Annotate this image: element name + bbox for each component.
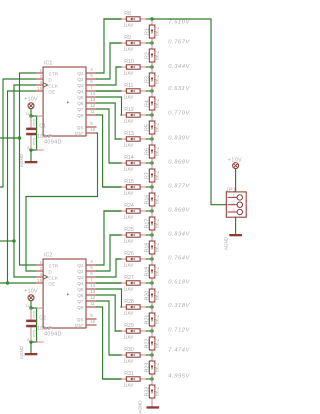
svg-text:Q3: Q3 [77,275,84,281]
wire IC1 Q3 to row3 [97,67,121,85]
wire R14 left lead to net [109,162,121,164]
wire R14 to junction [146,162,152,164]
wire R9 to junction [146,42,152,44]
svg-text:12: 12 [90,103,96,108]
svg-text:QS: QS [77,125,84,131]
wire R8 to junction [146,18,152,20]
VSS pin stub 8 (IC1) [37,149,44,151]
svg-text:6: 6 [90,271,93,276]
wire R27 left lead to net [97,282,121,284]
IC2 left pin stubs [35,265,43,283]
svg-text:R26: R26 [124,251,134,257]
svg-text:6K2: 6K2 [155,267,161,276]
node junction row 4 [150,89,153,92]
junction dot VSS (IC2) [29,340,32,343]
wire IC1 Q4 to row4 [97,90,121,92]
node STR junction [18,136,21,139]
svg-text:6K2: 6K2 [155,219,161,228]
svg-text:11K8: 11K8 [124,119,134,124]
resistor R11 11K8 (horizontal) [121,83,146,100]
IC1 left pin numbers 1 2 3 15 [37,68,43,91]
wire STR bus IC1 pin1 to IC2 pin1 [20,73,36,265]
IC2 origin mark [67,293,69,295]
resistor R4 6K2 (vertical) [144,91,160,115]
VDD supply loop wire (IC1) [31,116,37,150]
svg-text:R10: R10 [124,59,134,65]
svg-text:0.868V: 0.868V [168,207,190,213]
resistor R2 6K2 (vertical) [144,43,160,67]
wire VSS to AGND (IC1) [30,150,32,161]
wire R10 left lead to net [116,66,121,68]
svg-text:11K8: 11K8 [124,359,134,364]
wire R29 left lead to net [115,330,121,332]
svg-text:R16: R16 [144,195,150,205]
svg-text:R22: R22 [144,339,150,349]
svg-text:6K2: 6K2 [155,99,161,108]
resistor R14 11K8 (horizontal) [121,155,146,172]
svg-text:0.839V: 0.839V [168,135,190,141]
VDD supply loop wire (IC2) [31,308,37,342]
svg-text:Q8: Q8 [77,113,84,119]
resistor R25 11K8 (horizontal) [121,227,146,244]
svg-text:11K8: 11K8 [124,191,134,196]
wire IC1 Q6 to row6 [97,103,121,139]
svg-text:9: 9 [90,121,93,126]
resistor R27 11K8 (horizontal) [121,275,146,292]
svg-text:R7: R7 [144,172,150,179]
svg-text:7.474V: 7.474V [168,348,190,354]
svg-text:AGND: AGND [223,236,228,250]
svg-text:R8: R8 [124,11,131,17]
node junction row 1 [150,17,153,20]
resistor R28 11K8 (horizontal) [121,299,146,316]
svg-text:5: 5 [90,265,93,270]
capacitor C2 100nF [26,308,52,342]
wire R31 left lead to net [103,378,121,380]
svg-text:R14: R14 [124,155,134,161]
svg-text:15: 15 [37,278,43,283]
resistor R30 11K8 (horizontal) [121,347,146,364]
resistor R3 6K2 (vertical) [144,67,160,91]
node junction row 3 [150,65,153,68]
svg-text:C1: C1 [39,124,46,130]
svg-text:5: 5 [90,73,93,78]
svg-text:4: 4 [90,67,93,72]
resistor R31 11K8 (horizontal) [121,371,146,388]
IC2 clock input triangle [43,275,48,280]
svg-text:6K2: 6K2 [155,291,161,300]
svg-text:R9: R9 [124,35,131,41]
svg-text:7: 7 [90,277,93,282]
svg-text:0.344V: 0.344V [168,64,190,70]
IC1 left pin stubs [35,73,43,91]
resistor R23 6K2 (vertical) [144,355,160,379]
wire R29 to junction [146,330,152,332]
svg-text:100nF: 100nF [37,326,52,332]
wire R26 to junction [146,258,152,260]
resistor R29 11K8 (horizontal) [121,323,146,340]
svg-text:R30: R30 [124,347,134,353]
node junction row 15 [150,353,153,356]
junction dot VDD (IC2) [29,306,32,309]
wire CLK bus IC1 pin3 to IC2 pin3 [14,85,35,277]
resistor R20 6K2 (vertical) [144,283,160,307]
svg-text:R17: R17 [144,219,150,229]
svg-text:Q5: Q5 [77,95,84,101]
svg-text:CLK: CLK [48,275,58,281]
svg-text:0.764V: 0.764V [168,255,190,261]
wire IC1 QS* to IC2 D [26,133,98,271]
+10V supply symbol (IC1) [24,97,38,109]
IC2 right pin stubs [86,265,97,325]
junction dot VDD (IC1) [29,114,32,117]
wire R9 left lead to net [110,42,121,44]
wire R13 to junction [146,138,152,140]
svg-text:3: 3 [40,80,43,85]
svg-text:0.631V: 0.631V [168,86,190,92]
svg-text:0.770V: 0.770V [168,111,190,117]
svg-text:6K2: 6K2 [155,51,161,60]
resistor R32 6K2 (vertical) [144,379,160,403]
svg-text:6K2: 6K2 [155,27,161,36]
resistor R22 6K2 (vertical) [144,331,160,355]
svg-text:15: 15 [37,86,43,91]
resistor R5 6K2 (vertical) [144,115,160,139]
svg-text:0.712V: 0.712V [168,327,190,333]
wire IC2 Q6 to row14 [97,295,121,331]
svg-text:2: 2 [40,266,43,271]
svg-text:R28: R28 [124,299,134,305]
svg-text:STR: STR [48,71,58,77]
svg-text:R15: R15 [124,179,134,185]
VDD pin stub 16 (IC2) [37,307,44,309]
wire IC1 Q2 to row2 [97,43,121,79]
AGND ground symbol (JP1) [223,234,242,250]
svg-text:11K8: 11K8 [124,23,134,28]
IC1 right pin stubs [86,73,97,133]
svg-text:11K8: 11K8 [124,263,134,268]
wire IC1 Q5 to row5 [97,97,122,115]
svg-text:0.834V: 0.834V [168,231,190,237]
resistor R7 6K2 (vertical) [144,163,160,187]
wire R15 to junction [146,186,152,188]
wire +10V to JP1 pin1 [235,169,237,192]
svg-text:Q4: Q4 [77,89,84,95]
svg-text:R4: R4 [144,100,150,107]
node CLK junction [12,239,15,242]
resistor R26 11K8 (horizontal) [121,251,146,268]
resistor R12 11K8 (horizontal) [121,107,146,124]
svg-text:11K8: 11K8 [124,167,134,172]
svg-text:9: 9 [90,313,93,318]
IC1 clock input triangle [43,83,48,88]
svg-text:AGND: AGND [137,400,142,414]
svg-text:R24: R24 [124,203,134,209]
wire VSS to AGND (IC2) [30,342,32,353]
resistor R8 11K8 (horizontal) [121,11,146,28]
wire R31 to junction [146,378,152,380]
svg-text:Q8: Q8 [77,305,84,311]
resistor R19 6K2 (vertical) [144,259,160,283]
svg-text:1: 1 [40,68,43,73]
svg-text:R18: R18 [144,243,150,253]
svg-text:13: 13 [90,289,96,294]
wire IC2 Q4 to row12 [97,282,121,284]
svg-text:R20: R20 [144,291,150,301]
wire R8 left lead to net [104,18,121,20]
node junction row 9 [150,209,153,212]
node junction row 13 [150,305,153,308]
svg-text:R3: R3 [144,76,150,83]
wire R30 left lead to net [109,354,121,356]
+10V supply symbol (JP1) [228,158,242,169]
svg-text:AGND: AGND [19,345,24,359]
wire R12 to junction [146,114,152,116]
resistor R17 6K2 (vertical) [144,211,160,235]
wire IC1 Q8 to row8 [97,115,121,187]
svg-text:7.610V: 7.610V [168,20,190,26]
svg-text:13: 13 [90,97,96,102]
svg-text:4: 4 [90,259,93,264]
svg-text:Q4: Q4 [77,281,84,287]
resistor R15 11K8 (horizontal) [121,179,146,196]
svg-text:AGND: AGND [19,153,24,167]
svg-text:Q3: Q3 [77,83,84,89]
svg-text:R1: R1 [144,28,150,35]
IC2 left pin numbers 1 2 3 15 [37,260,43,283]
IC2 left pin names [48,263,58,287]
wire R30 to junction [146,354,152,356]
VDD pin stub 16 (IC1) [37,115,44,117]
svg-text:VSS: VSS [33,329,37,337]
wire ladder row1 to JP1 pin2 [152,19,226,205]
svg-text:2: 2 [40,74,43,79]
svg-text:0.877V: 0.877V [168,183,190,189]
wire +10V to VDD node (IC2) [30,301,32,308]
resistor R21 6K2 (vertical) [144,307,160,331]
svg-text:0.618V: 0.618V [168,279,190,285]
capacitor C1 100nF [26,116,52,150]
svg-text:11K8: 11K8 [124,47,134,52]
resistor R10 11K8 (horizontal) [121,59,146,76]
svg-text:R32: R32 [144,387,150,397]
node junction row 2 [150,41,153,44]
svg-text:2: 2 [232,201,234,205]
node OE junction [6,281,9,284]
svg-text:R19: R19 [144,267,150,277]
svg-text:12: 12 [90,295,96,300]
wire external OE input [0,282,35,284]
svg-text:D: D [48,269,52,275]
AGND ground symbol (ladder bottom) [137,400,159,414]
svg-text:VDD: VDD [33,310,37,318]
svg-text:R25: R25 [124,227,134,233]
wire IC2 Q3 to row11 [97,259,121,277]
resistor R24 11K8 (horizontal) [121,203,146,220]
svg-text:Q6: Q6 [77,101,84,107]
wire R11 to junction [146,90,152,92]
svg-text:11K8: 11K8 [124,383,134,388]
wire R27 to junction [146,282,152,284]
svg-text:Q2: Q2 [77,269,84,275]
svg-text:0.318V: 0.318V [168,303,190,309]
wire IC2 Q5 to row13 [97,289,122,307]
svg-text:CLK: CLK [48,83,58,89]
svg-text:4.995V: 4.995V [168,374,190,380]
svg-text:OE: OE [48,89,55,95]
svg-text:6K2: 6K2 [155,195,161,204]
wire JP1 pin3 to AGND [235,217,237,234]
wire R10 to junction [146,66,152,68]
node junction row 12 [150,281,153,284]
svg-text:6K2: 6K2 [155,243,161,252]
svg-text:11K8: 11K8 [124,215,134,220]
svg-text:0.868V: 0.868V [168,159,190,165]
svg-text:+10V: +10V [24,289,38,295]
wire OE bus IC1 pin15 to IC2 pin15 [8,91,36,283]
svg-text:10: 10 [90,319,96,324]
wire R15 left lead to net [103,186,121,188]
svg-text:QS*: QS* [75,131,84,137]
IC1 left pin names [48,71,58,95]
wire R26 left lead to net [116,258,121,260]
connector JP1 [226,188,246,218]
wire R24 left lead to net [104,210,121,212]
svg-text:R23: R23 [144,363,150,373]
svg-text:11K8: 11K8 [124,95,134,100]
+10V supply symbol (IC2) [24,289,38,301]
IC IC2 4094D shift register box [43,259,86,328]
svg-text:6K2: 6K2 [155,171,161,180]
svg-text:0.767V: 0.767V [168,39,190,45]
wire R11 left lead to net [97,90,121,92]
IC1 right pin numbers [90,67,96,132]
wire IC1 Q7 to row7 [97,109,121,163]
wire IC2 Q7 to row15 [97,301,121,355]
svg-text:IC1: IC1 [44,60,52,66]
svg-text:QS: QS [77,317,84,323]
junction dot VSS (IC1) [29,148,32,151]
svg-text:6K2: 6K2 [155,315,161,324]
svg-text:6K2: 6K2 [155,147,161,156]
svg-text:1: 1 [40,260,43,265]
svg-text:14: 14 [90,91,96,96]
node junction row 16 [150,377,153,380]
svg-text:R29: R29 [124,323,134,329]
svg-text:Q7: Q7 [77,299,84,305]
wire R25 to junction [146,234,152,236]
svg-text:R5: R5 [144,124,150,131]
svg-text:Q7: Q7 [77,107,84,113]
svg-text:11: 11 [90,109,95,114]
resistor R6 6K2 (vertical) [144,139,160,163]
svg-text:STR: STR [48,263,58,269]
svg-text:Q5: Q5 [77,287,84,293]
svg-text:Q1: Q1 [77,263,84,269]
node junction row 5 [150,113,153,116]
AGND ground symbol (IC1) [19,153,37,167]
svg-text:R12: R12 [124,107,134,113]
svg-text:C2: C2 [39,316,46,322]
svg-text:Q2: Q2 [77,77,84,83]
svg-text:VSS: VSS [33,137,37,145]
svg-text:R27: R27 [124,275,134,281]
svg-text:11K8: 11K8 [124,239,134,244]
svg-text:6K2: 6K2 [155,387,161,396]
svg-text:D: D [48,77,52,83]
node junction row 11 [150,257,153,260]
svg-text:11K8: 11K8 [124,311,134,316]
svg-text:6K2: 6K2 [155,363,161,372]
resistor R18 6K2 (vertical) [144,235,160,259]
svg-text:100nF: 100nF [37,134,52,140]
node junction row 6 [150,137,153,140]
svg-text:+10V: +10V [24,97,38,103]
resistor R9 11K8 (horizontal) [121,35,146,52]
svg-text:10: 10 [90,127,96,132]
wire IC2 Q2 to row10 [97,235,121,271]
svg-text:1: 1 [232,194,234,198]
svg-text:R13: R13 [124,131,134,137]
svg-text:R31: R31 [124,371,134,377]
wire external D input to IC1 pin2 [0,79,35,187]
svg-text:6: 6 [90,79,93,84]
AGND ground symbol (IC2) [19,345,37,359]
wire R24 to junction [146,210,152,212]
IC1 origin mark [67,101,69,103]
svg-text:IC2: IC2 [44,252,52,258]
svg-text:JP1: JP1 [226,188,236,194]
IC1 right pin names [75,71,84,137]
svg-text:11K8: 11K8 [124,335,134,340]
svg-text:7: 7 [90,85,93,90]
svg-text:R2: R2 [144,52,150,59]
wire IC2 Q1 to row9 [97,211,121,265]
wire R28 to junction [146,306,152,308]
wire R13 left lead to net [115,138,121,140]
VSS pin stub 8 (IC2) [37,341,44,343]
wire +10V to VDD node (IC1) [30,109,32,116]
node junction row 7 [150,161,153,164]
svg-text:3: 3 [40,272,43,277]
wire external CLK input [0,240,14,242]
svg-text:6K2: 6K2 [155,123,161,132]
wire R25 left lead to net [110,234,121,236]
node junction row 8 [150,185,153,188]
resistor R13 11K8 (horizontal) [121,131,146,148]
svg-text:Q6: Q6 [77,293,84,299]
svg-text:R21: R21 [144,315,150,325]
svg-text:R6: R6 [144,148,150,155]
resistor R16 6K2 (vertical) [144,187,160,211]
svg-text:11K8: 11K8 [124,143,134,148]
IC2 right pin numbers [90,259,96,324]
svg-text:QS*: QS* [75,323,84,329]
svg-text:3: 3 [232,208,234,212]
svg-text:6K2: 6K2 [155,339,161,348]
svg-text:Q1: Q1 [77,71,84,77]
svg-text:11K8: 11K8 [124,287,134,292]
svg-text:OE: OE [48,281,55,287]
svg-text:VDD: VDD [33,118,37,126]
wire IC2 Q8 to row16 [97,307,121,379]
wire IC1 Q1 to row1 [97,19,121,73]
IC IC1 4094D shift register box [43,67,86,136]
IC2 right pin names [75,263,84,329]
svg-text:R11: R11 [124,83,133,89]
node junction row 10 [150,233,153,236]
node junction row 14 [150,329,153,332]
